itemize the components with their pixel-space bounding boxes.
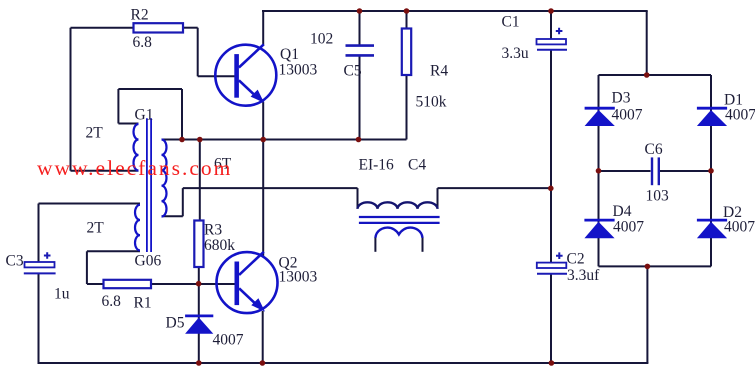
wire: EI-16 primary left lead xyxy=(357,188,359,208)
wire: Q2 collector vertical xyxy=(262,140,264,257)
svg-text:C6: C6 xyxy=(645,141,663,158)
wire: R3 top feed from node xyxy=(199,140,201,222)
wire: top rail xyxy=(262,10,648,12)
svg-text:4007: 4007 xyxy=(724,219,755,236)
wire: D4 branch vertical xyxy=(598,171,600,266)
wire: C1 top lead xyxy=(550,11,552,39)
wire: lower 2T winding bottom lead xyxy=(87,250,140,252)
wire: D1 branch vertical xyxy=(710,75,712,171)
svg-text:D4: D4 xyxy=(613,203,632,220)
wire: bottom rail xyxy=(39,362,649,364)
wire: drive rail y=188 left of T2 xyxy=(183,187,358,189)
svg-text:4007: 4007 xyxy=(613,219,644,236)
wire: riser to drive rail xyxy=(182,188,184,216)
wire: descent to R1 xyxy=(86,251,88,284)
wire: C5 bottom lead xyxy=(359,56,361,140)
resistor R1 body xyxy=(104,280,152,288)
svg-text:6.8: 6.8 xyxy=(102,293,122,310)
wire: EI-16 secondary left lead xyxy=(374,237,376,252)
svg-text:2T: 2T xyxy=(87,220,105,237)
transformer T1 upper 2T winding xyxy=(134,124,139,171)
svg-text:4007: 4007 xyxy=(725,107,755,124)
svg-text:R3: R3 xyxy=(204,222,222,239)
resistor R4 body xyxy=(402,29,411,76)
transistor Q2 xyxy=(217,252,278,313)
svg-text:3.3uf: 3.3uf xyxy=(567,267,600,284)
svg-text:R2: R2 xyxy=(131,7,149,24)
resistor R3 body xyxy=(194,221,203,268)
wire: left vertical from R2 xyxy=(70,28,72,171)
svg-text:C3: C3 xyxy=(6,253,24,270)
svg-text:G1: G1 xyxy=(135,107,154,124)
svg-text:680k: 680k xyxy=(204,237,235,254)
capacitor C5 plates xyxy=(346,46,375,56)
svg-text:C4: C4 xyxy=(408,157,426,174)
svg-text:R1: R1 xyxy=(134,295,152,312)
wire: Q1 emitter vertical xyxy=(262,102,264,140)
wire: C5 top lead xyxy=(359,11,361,45)
wire: C3 branch lower lead xyxy=(38,274,40,364)
wire: C3 branch upper lead xyxy=(38,204,40,263)
wire: R4 top lead xyxy=(406,11,408,29)
svg-text:C5: C5 xyxy=(344,63,362,80)
wire: D2 branch vertical xyxy=(710,171,712,266)
transformer T2 core xyxy=(359,217,440,223)
wire: R1 left lead xyxy=(87,283,104,285)
transformer T1 lower 2T winding xyxy=(135,205,140,251)
svg-text:4007: 4007 xyxy=(213,332,244,349)
wire: right bottom descent xyxy=(646,266,648,363)
wire: right top descent xyxy=(646,11,648,75)
transformer T2 secondary winding xyxy=(375,228,422,238)
svg-text:102: 102 xyxy=(310,31,333,48)
resistor R2 body xyxy=(134,23,184,32)
svg-text:D3: D3 xyxy=(612,90,631,107)
wire: C6 right segment xyxy=(659,170,711,172)
wire: C1 bottom to C2 top xyxy=(550,50,552,263)
svg-text:R4: R4 xyxy=(430,63,448,80)
diode D1 xyxy=(697,108,727,126)
wire: C2 bottom lead xyxy=(550,274,552,363)
svg-text:EI-16: EI-16 xyxy=(359,157,395,174)
transistor Q1 xyxy=(215,44,276,105)
svg-text:13003: 13003 xyxy=(279,269,318,286)
wire: C3 to lower 2T winding top xyxy=(39,203,141,205)
wire: base wire R1 to Q2 xyxy=(151,283,235,285)
wire: drive rail y=188 right of T2 xyxy=(438,187,552,189)
wire: upper 2T winding bottom lead xyxy=(71,170,139,172)
wire: G1 box left vertical xyxy=(117,89,119,124)
wire: Q1 collector vertical xyxy=(262,11,264,45)
junction node dots xyxy=(179,8,714,366)
capacitor C6 plates xyxy=(652,157,659,185)
svg-text:4007: 4007 xyxy=(612,107,643,124)
transformer T1 6T winding xyxy=(162,140,167,217)
wire: emitter rail y=139.5 xyxy=(162,139,407,141)
svg-text:D5: D5 xyxy=(166,315,185,332)
wire: R4 bottom lead xyxy=(406,75,408,140)
svg-text:2T: 2T xyxy=(86,125,104,142)
diode D5 xyxy=(185,316,213,334)
wire: descent to Q1 base xyxy=(197,28,199,77)
svg-text:13003: 13003 xyxy=(279,62,318,79)
transformer T2 (EI-16) primary winding xyxy=(358,202,438,209)
wire: upper 2T winding top lead xyxy=(118,123,138,125)
svg-text:3.3u: 3.3u xyxy=(502,45,529,62)
wire: Q2 emitter vertical xyxy=(262,311,264,363)
svg-text:C1: C1 xyxy=(502,14,520,31)
wire: R2 left lead xyxy=(71,27,135,29)
svg-text:C2: C2 xyxy=(567,251,585,268)
wire: G1 box right descent to node xyxy=(181,89,183,140)
svg-text:www.elecfans.com: www.elecfans.com xyxy=(37,156,232,180)
diode D2 xyxy=(697,220,727,238)
diode D4 xyxy=(584,220,614,238)
wire: Q1 base wire xyxy=(198,75,235,77)
wire: R2 right lead xyxy=(183,27,198,29)
svg-text:510k: 510k xyxy=(416,94,447,111)
capacitor C3 (polarized) xyxy=(24,252,56,273)
wire: bridge bottom of D4/D2 xyxy=(599,265,712,267)
svg-text:103: 103 xyxy=(646,188,670,205)
capacitor C1 (polarized) xyxy=(537,28,568,50)
wire: G1 box top horizontal xyxy=(118,88,182,90)
wire: EI-16 primary right lead xyxy=(437,188,439,208)
wire: C6 left segment xyxy=(599,170,651,172)
wire: EI-16 secondary right lead xyxy=(422,237,424,252)
capacitor C2 (polarized) xyxy=(537,252,567,273)
wire: R3 bottom lead / D5 top lead xyxy=(198,267,200,363)
wire: 6T winding bottom lead xyxy=(162,215,183,217)
svg-text:G06: G06 xyxy=(135,253,162,270)
wire: bridge top of D3/D1 xyxy=(599,74,712,76)
svg-text:6.8: 6.8 xyxy=(133,34,153,51)
transformer T1 core xyxy=(147,118,151,252)
diode D3 xyxy=(585,108,615,126)
svg-text:Q1: Q1 xyxy=(280,46,299,63)
wire: D3 branch vertical xyxy=(598,75,600,171)
svg-text:1u: 1u xyxy=(54,286,70,303)
